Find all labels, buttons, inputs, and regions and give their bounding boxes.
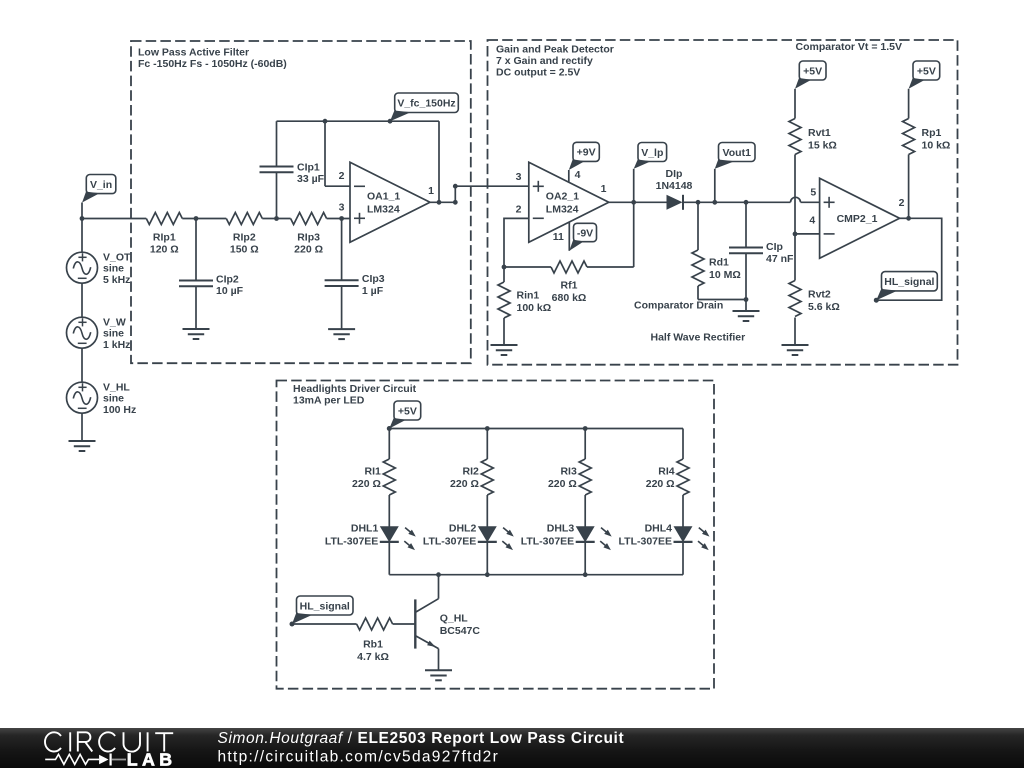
svg-text:LM324: LM324 (546, 203, 579, 215)
svg-text:3: 3 (339, 202, 345, 214)
svg-text:+5V: +5V (803, 65, 822, 77)
svg-text:150 Ω: 150 Ω (230, 243, 259, 255)
svg-text:100 kΩ: 100 kΩ (517, 302, 552, 314)
svg-text:33 µF: 33 µF (297, 173, 325, 185)
svg-text:sine: sine (103, 263, 124, 275)
svg-text:Vout1: Vout1 (723, 147, 752, 159)
svg-text:CIp2: CIp2 (216, 274, 239, 286)
svg-text:HL_signal: HL_signal (884, 276, 934, 288)
svg-text:OA2_1: OA2_1 (546, 191, 579, 203)
svg-text:13mA per LED: 13mA per LED (293, 395, 365, 407)
svg-text:LTL-307EE: LTL-307EE (521, 535, 574, 547)
svg-text:CIp: CIp (766, 241, 783, 253)
svg-text:5.6 kΩ: 5.6 kΩ (808, 301, 840, 313)
svg-text:sine: sine (103, 393, 124, 405)
svg-text:RI1: RI1 (365, 466, 382, 478)
svg-text:Rvt1: Rvt1 (808, 127, 831, 139)
svg-text:220 Ω: 220 Ω (352, 478, 381, 490)
svg-text:11: 11 (553, 231, 564, 243)
svg-text:Rf1: Rf1 (561, 280, 578, 292)
svg-text:BC547C: BC547C (440, 625, 481, 637)
svg-text:Rin1: Rin1 (517, 290, 540, 302)
svg-text:220 Ω: 220 Ω (450, 478, 479, 490)
svg-text:2: 2 (339, 170, 345, 182)
svg-text:Rvt2: Rvt2 (808, 289, 831, 301)
svg-text:LTL-307EE: LTL-307EE (423, 535, 476, 547)
svg-text:+5V: +5V (398, 405, 417, 417)
svg-text:LTL-307EE: LTL-307EE (619, 535, 672, 547)
svg-text:2: 2 (899, 197, 905, 209)
svg-text:RI2: RI2 (463, 466, 480, 478)
svg-text:OA1_1: OA1_1 (367, 191, 400, 203)
svg-text:4: 4 (809, 215, 815, 227)
svg-text:-9V: -9V (577, 227, 593, 239)
svg-text:Fc -150Hz Fs - 1050Hz (-60dB): Fc -150Hz Fs - 1050Hz (-60dB) (138, 58, 287, 70)
svg-text:10 MΩ: 10 MΩ (709, 269, 741, 281)
svg-text:Half Wave Rectifier: Half Wave Rectifier (651, 332, 746, 344)
svg-text:Simon.Houtgraaf / ELE2503 Repo: Simon.Houtgraaf / ELE2503 Report Low Pas… (218, 730, 625, 747)
svg-text:47 nF: 47 nF (766, 253, 794, 265)
svg-text:DHL2: DHL2 (449, 522, 477, 534)
svg-text:100 Hz: 100 Hz (103, 404, 136, 416)
svg-text:4.7 kΩ: 4.7 kΩ (357, 651, 389, 663)
svg-text:1 µF: 1 µF (362, 285, 384, 297)
svg-text:CIp1: CIp1 (297, 161, 320, 173)
svg-text:220 Ω: 220 Ω (548, 478, 577, 490)
svg-text:V_lp: V_lp (641, 147, 663, 159)
svg-text:DHL4: DHL4 (645, 522, 673, 534)
svg-text:Low Pass Active Filter: Low Pass Active Filter (138, 46, 249, 58)
svg-text:+9V: +9V (577, 147, 596, 159)
svg-text:10 µF: 10 µF (216, 285, 244, 297)
svg-text:LAB: LAB (127, 749, 177, 768)
svg-text:CMP2_1: CMP2_1 (837, 213, 878, 225)
svg-text:Gain and Peak Detector: Gain and Peak Detector (496, 44, 614, 56)
svg-text:sine: sine (103, 328, 124, 340)
svg-text:RI3: RI3 (560, 466, 577, 478)
svg-text:DHL1: DHL1 (351, 522, 379, 534)
svg-text:220 Ω: 220 Ω (646, 478, 675, 490)
svg-text:4: 4 (575, 169, 581, 181)
svg-text:1: 1 (428, 185, 434, 197)
svg-text:Rb1: Rb1 (363, 639, 383, 651)
svg-text:5 kHz: 5 kHz (103, 274, 130, 286)
svg-text:10 kΩ: 10 kΩ (922, 139, 951, 151)
svg-text:CIp3: CIp3 (362, 273, 385, 285)
svg-text:RIp2: RIp2 (233, 232, 256, 244)
svg-text:V_fc_150Hz: V_fc_150Hz (397, 98, 455, 110)
svg-text:DHL3: DHL3 (547, 522, 575, 534)
svg-text:RI4: RI4 (658, 466, 675, 478)
svg-text:7 x Gain and rectify: 7 x Gain and rectify (496, 55, 593, 67)
svg-text:DC output = 2.5V: DC output = 2.5V (496, 67, 580, 79)
svg-text:DIp: DIp (666, 168, 683, 180)
svg-text:1: 1 (601, 183, 607, 195)
svg-text:Rp1: Rp1 (922, 127, 942, 139)
svg-text:Comparator Vt = 1.5V: Comparator Vt = 1.5V (796, 41, 903, 53)
svg-text:LTL-307EE: LTL-307EE (325, 535, 378, 547)
svg-text:1N4148: 1N4148 (656, 180, 693, 192)
svg-text:HL_signal: HL_signal (300, 600, 350, 612)
svg-text:Comparator Drain: Comparator Drain (634, 300, 723, 312)
svg-text:http://circuitlab.com/cv5da927: http://circuitlab.com/cv5da927ftd2r (218, 748, 500, 765)
svg-text:680 kΩ: 680 kΩ (552, 292, 587, 304)
svg-text:Q_HL: Q_HL (440, 613, 469, 625)
svg-text:15 kΩ: 15 kΩ (808, 139, 837, 151)
svg-text:Rd1: Rd1 (709, 257, 729, 269)
svg-text:LM324: LM324 (367, 203, 400, 215)
svg-text:Headlights Driver Circuit: Headlights Driver Circuit (293, 383, 417, 395)
svg-text:V_in: V_in (90, 179, 112, 191)
svg-text:RIp1: RIp1 (153, 232, 176, 244)
svg-text:1 kHz: 1 kHz (103, 339, 130, 351)
svg-text:120 Ω: 120 Ω (150, 243, 179, 255)
svg-text:220 Ω: 220 Ω (294, 243, 323, 255)
svg-text:RIp3: RIp3 (297, 232, 320, 244)
svg-text:5: 5 (810, 187, 816, 199)
svg-text:2: 2 (516, 204, 522, 216)
svg-text:+5V: +5V (917, 65, 936, 77)
svg-text:3: 3 (516, 171, 522, 183)
